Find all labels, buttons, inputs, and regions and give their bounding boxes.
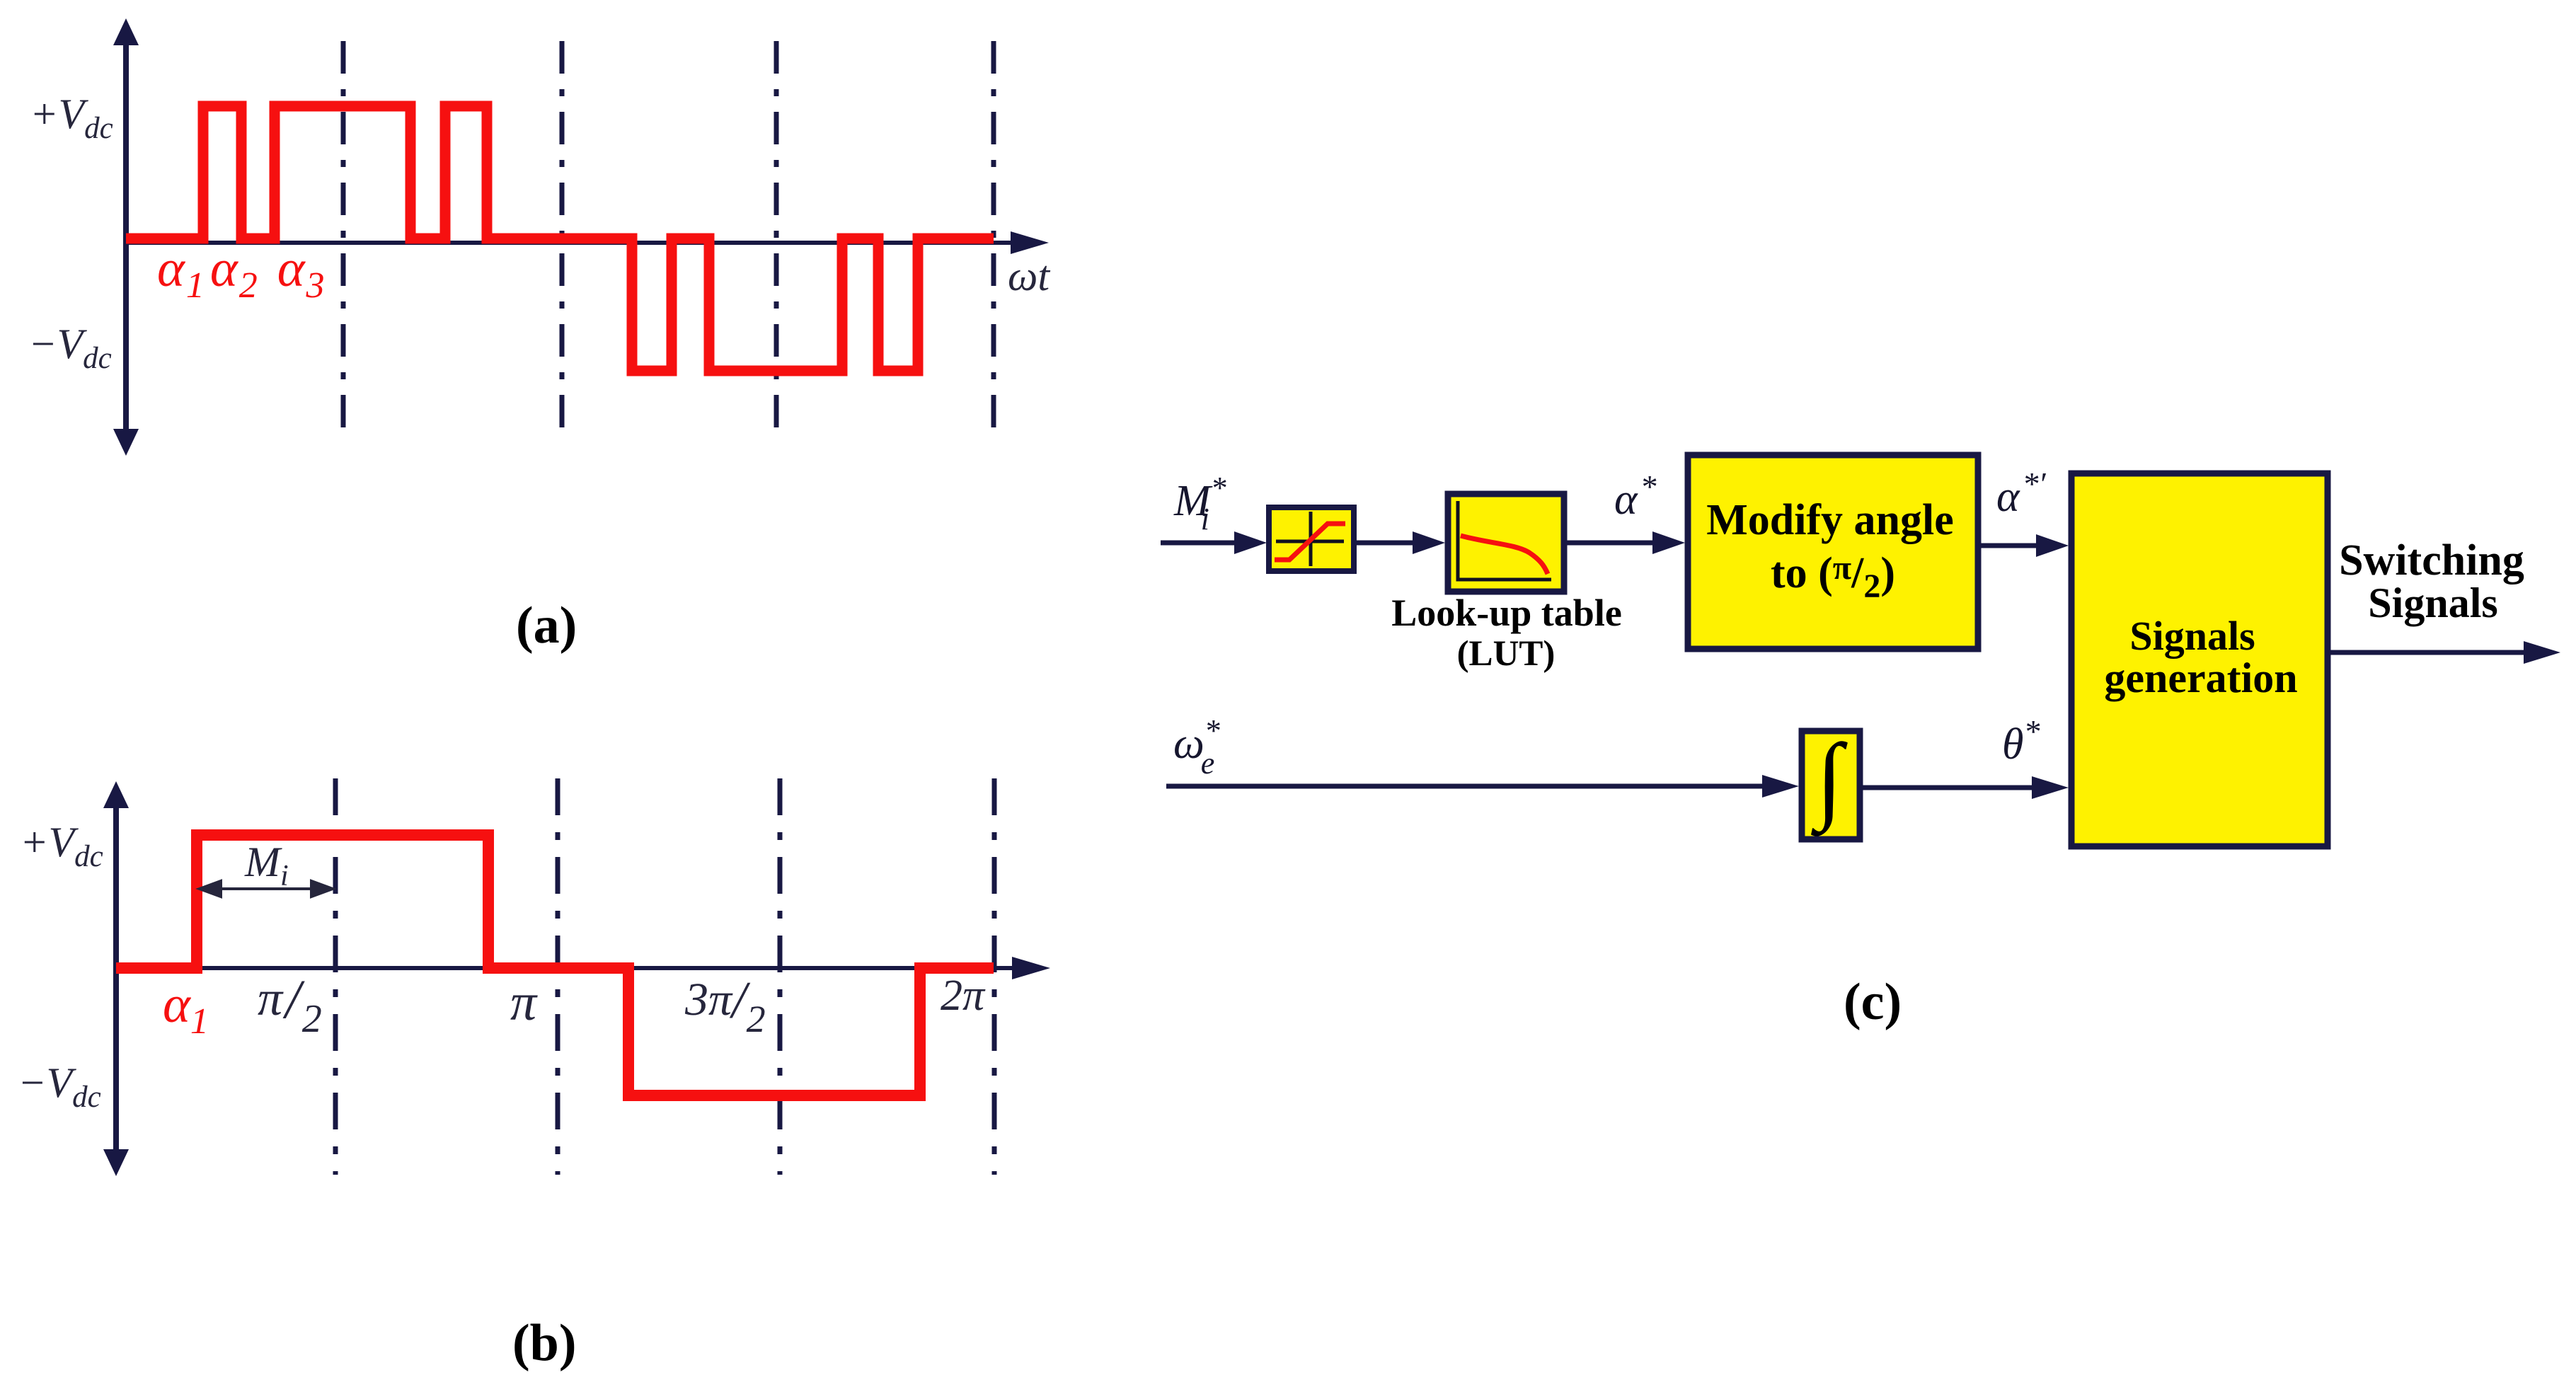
svg-text:α*: α*: [1614, 468, 1657, 524]
svg-text:−Vdc: −Vdc: [18, 1059, 101, 1114]
svg-text:α*′: α*′: [1996, 466, 2047, 521]
svg-text:Signals: Signals: [2129, 613, 2255, 659]
svg-text:Switching: Switching: [2339, 536, 2524, 585]
waveform (a) SHE-PWM trace: [126, 106, 994, 371]
svg-text:π/2: π/2: [258, 968, 322, 1041]
axis (a) horizontal ωt: [126, 231, 1049, 254]
svg-text:M*i: M*i: [1173, 471, 1226, 536]
svg-text:(LUT): (LUT): [1457, 634, 1556, 674]
block look-up table LUT: [1448, 494, 1564, 592]
svg-text:∫: ∫: [1810, 724, 1848, 836]
axis (b) horizontal: [116, 957, 1050, 979]
svg-text:(b): (b): [512, 1314, 576, 1372]
svg-text:Modify angle: Modify angle: [1706, 496, 1954, 544]
svg-text:α1: α1: [163, 976, 209, 1042]
block saturation limiter U1: [1269, 507, 1354, 571]
svg-text:+Vdc: +Vdc: [20, 819, 103, 873]
gridline (a) pi dash-dot: [560, 41, 565, 432]
svg-text:−Vdc: −Vdc: [28, 321, 112, 375]
gridline (a) 3pi/2 dash-dot: [774, 41, 779, 432]
wire Mi* to saturation block: [1161, 531, 1267, 554]
axis (a) vertical: [113, 18, 139, 456]
gridline (a) 2pi dash-dot: [991, 41, 996, 432]
gridline (b) pi dash-dot: [556, 778, 560, 1175]
gridline (b) 2pi dash-dot: [992, 778, 997, 1175]
svg-text:Mi: Mi: [244, 839, 289, 892]
wire ωe* to integrator: [1166, 775, 1799, 798]
gridline (a) pi/2 dash-dot: [341, 41, 346, 432]
wire saturation to LUT: [1356, 531, 1445, 554]
wire LUT to modify-angle block: [1567, 531, 1685, 554]
gridline (b) pi/2 dash-dot: [333, 778, 338, 1175]
svg-text:+Vdc: +Vdc: [30, 91, 113, 145]
svg-text:ωt: ωt: [1008, 253, 1050, 299]
axis (b) vertical: [103, 781, 129, 1176]
svg-text:ω*e: ω*e: [1173, 713, 1220, 781]
svg-text:(a): (a): [516, 597, 577, 655]
svg-text:Signals: Signals: [2368, 580, 2497, 626]
svg-text:π: π: [510, 974, 538, 1032]
svg-text:(c): (c): [1844, 973, 1902, 1031]
svg-text:α1α2α3: α1α2α3: [157, 240, 325, 306]
svg-text:Look-up table: Look-up table: [1391, 592, 1622, 634]
gridline (b) 3pi/2 dash-dot: [778, 778, 783, 1175]
svg-text:2π: 2π: [941, 972, 986, 1020]
svg-text:3π/2: 3π/2: [684, 972, 766, 1040]
svg-text:θ*: θ*: [2002, 713, 2040, 769]
block modify angle to pi/2: [1688, 455, 1978, 649]
dimension arrow Mi: [200, 881, 333, 897]
waveform (b) fundamental square-wave trace: [116, 835, 994, 1095]
wire integrator to signals-generation: [1863, 776, 2069, 799]
wire modify-angle to signals-generation: [1981, 534, 2069, 557]
block signals generation: [2071, 473, 2328, 846]
wire switching signals output: [2330, 641, 2560, 664]
block integrator: [1802, 724, 1860, 839]
svg-text:generation: generation: [2104, 655, 2297, 701]
